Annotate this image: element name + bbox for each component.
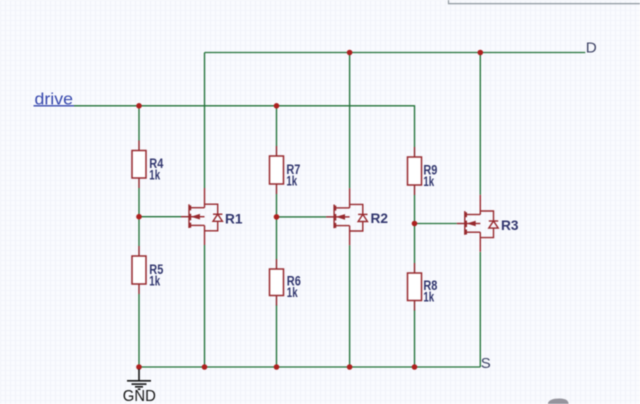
wire col1 gate node to R5 bbox=[138, 217, 140, 246]
resistor R6 1k bbox=[276, 259, 278, 269]
wire bottom S rail bbox=[139, 366, 480, 368]
resistor R7 1k bbox=[276, 146, 278, 156]
junction node S-col3 bbox=[412, 364, 418, 370]
svg-text:1k: 1k bbox=[149, 168, 160, 183]
wire top D rail bbox=[205, 52, 586, 54]
junction node S-M2 bbox=[347, 364, 353, 370]
junction node D-M2 bbox=[347, 50, 353, 56]
svg-text:1k: 1k bbox=[423, 290, 434, 305]
wire col2 R7 to gate node bbox=[276, 194, 278, 217]
svg-text:R2: R2 bbox=[371, 210, 389, 226]
transistor M3 (N-MOSFET with body diode) bbox=[465, 195, 498, 252]
wire col2 gate node to R6 bbox=[276, 217, 278, 259]
wire col3 R9 to gate node bbox=[414, 195, 416, 224]
junction node drive-col1 bbox=[136, 103, 142, 109]
wire drive rail bbox=[74, 106, 415, 147]
svg-text:S: S bbox=[481, 355, 491, 372]
ground GND symbol bbox=[127, 369, 151, 389]
svg-text:R1: R1 bbox=[225, 211, 243, 227]
watermark logo fragment bbox=[548, 398, 569, 404]
wire col1 gate node to M1 gate bbox=[139, 216, 181, 218]
junction node gate3 bbox=[412, 221, 418, 227]
wire M1 source to bottom rail bbox=[204, 245, 206, 367]
svg-text:R3: R3 bbox=[501, 217, 519, 233]
junction node D-M3 bbox=[478, 50, 484, 56]
wire col3 R8 to bottom rail bbox=[414, 310, 416, 367]
svg-text:GND: GND bbox=[123, 388, 156, 404]
wire col1 R4 to gate node bbox=[138, 188, 140, 217]
svg-text:1k: 1k bbox=[286, 174, 297, 189]
wire M2 gate pin bbox=[326, 216, 334, 218]
junction node S-col2 bbox=[274, 364, 280, 370]
wire col2 gate node to M2 gate bbox=[277, 216, 327, 218]
svg-text:1k: 1k bbox=[287, 285, 298, 300]
wire M2 drain to top rail bbox=[349, 53, 351, 189]
resistor R5 1k bbox=[138, 246, 140, 256]
wire M1 drain to top rail bbox=[204, 53, 206, 189]
wire col3 gate node to R8 bbox=[414, 224, 416, 264]
wire M1 gate pin bbox=[181, 216, 189, 218]
junction node S-M1 bbox=[202, 364, 208, 370]
svg-text:D: D bbox=[586, 39, 597, 56]
wire M3 drain to top rail bbox=[479, 53, 481, 195]
svg-text:1k: 1k bbox=[423, 174, 434, 189]
wire col2 drive to R7 bbox=[276, 106, 278, 146]
svg-text:1k: 1k bbox=[149, 274, 160, 289]
junction node drive-col2 bbox=[274, 103, 280, 109]
wire col1 drive to R4 bbox=[138, 106, 140, 141]
wire col3 gate node to M3 gate bbox=[415, 223, 457, 225]
wire M3 gate pin bbox=[457, 223, 465, 225]
resistor R8 1k bbox=[414, 263, 416, 273]
wire col2 R6 to bottom rail bbox=[276, 305, 278, 367]
resistor R4 1k bbox=[138, 141, 140, 151]
border frame fragment (window edge) bbox=[449, 0, 640, 4]
transistor M1 (N-MOSFET with body diode) bbox=[189, 188, 222, 245]
wire M3 source down bbox=[479, 252, 481, 367]
wire col1 R5 to bottom rail bbox=[138, 294, 140, 367]
junction node gate1 bbox=[136, 214, 142, 220]
resistor R9 1k bbox=[414, 147, 416, 157]
wire M2 source to bottom rail bbox=[349, 245, 351, 367]
junction node gate2 bbox=[274, 214, 280, 220]
junction node S-col1 bbox=[136, 364, 142, 370]
transistor M2 (N-MOSFET with body diode) bbox=[334, 188, 367, 245]
